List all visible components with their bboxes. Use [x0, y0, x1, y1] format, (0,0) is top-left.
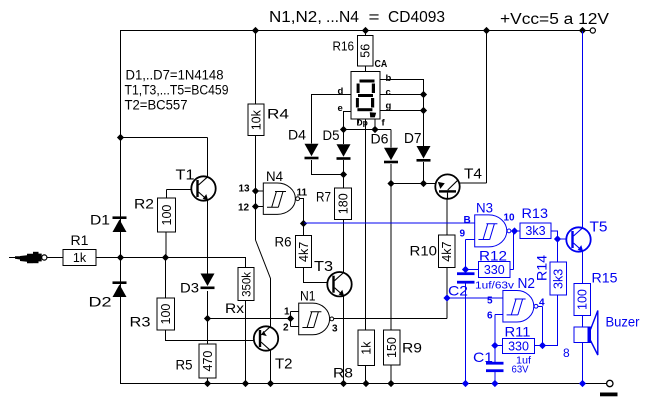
svg-text:4k7: 4k7 — [440, 241, 454, 261]
wire N3 pin9 to C2 top — [466, 240, 475, 273]
node Rx-0V — [242, 380, 249, 387]
wire display segment f down — [374, 119, 376, 130]
wire Rx bottom to 0V rail — [245, 301, 247, 384]
wire C1 node to R11 left — [495, 345, 503, 347]
wire R12 right to N3 output — [510, 231, 514, 270]
diode D2 — [113, 281, 127, 297]
svg-text:12: 12 — [238, 203, 250, 214]
svg-text:11: 11 — [297, 188, 308, 199]
wire C2 node to R12 left — [466, 269, 479, 271]
resistor R12 — [479, 262, 511, 278]
svg-text:56: 56 — [359, 44, 373, 58]
wire R6 bottom to T3 base — [304, 268, 328, 283]
wire left rail to T1 collector — [120, 138, 208, 177]
svg-text:1uf/63v: 1uf/63v — [475, 281, 514, 292]
svg-text:350k: 350k — [242, 272, 254, 297]
wire N1 output pin 3 to R10 node — [334, 318, 447, 320]
node T3-0V — [340, 380, 347, 387]
svg-text:10k: 10k — [250, 109, 264, 130]
node C2-0V — [462, 380, 469, 387]
wire R2 top to T1 base — [167, 190, 192, 199]
wire top rail to T4 collector — [460, 31, 487, 184]
svg-text:13: 13 — [239, 184, 251, 195]
svg-text:R8: R8 — [333, 366, 353, 381]
wire display Dp pin through R8 to 0V rail — [365, 119, 367, 384]
svg-text:R9: R9 — [402, 341, 422, 356]
wire D3/R5 node to N1 inputs — [208, 318, 291, 320]
resistor R1 — [63, 250, 96, 266]
svg-text:T1,T3,...T5=BC459: T1,T3,...T5=BC459 — [125, 83, 229, 98]
capacitor C1 — [486, 362, 504, 372]
svg-text:C1: C1 — [473, 349, 493, 365]
node R5-0V — [204, 380, 211, 387]
wire probe tail — [9, 257, 15, 259]
svg-text:c: c — [386, 87, 391, 98]
node pin12 — [252, 203, 259, 210]
svg-text:R14: R14 — [535, 254, 550, 281]
probe input terminal — [15, 252, 47, 263]
svg-text:N1,N2,: N1,N2, — [269, 9, 322, 26]
svg-text:R16: R16 — [333, 40, 355, 54]
svg-text:D4: D4 — [288, 127, 306, 143]
resistor R9 — [383, 330, 400, 365]
resistor R3 — [157, 298, 175, 330]
svg-text:T2=BC557: T2=BC557 — [125, 98, 188, 113]
wire N1 input stubs pins 1 2 — [291, 312, 299, 327]
node f — [371, 126, 378, 133]
svg-text:N3: N3 — [476, 201, 493, 216]
svg-text:R12: R12 — [479, 249, 507, 264]
wire R3 bottom to T2 base — [166, 330, 255, 341]
svg-text:...N4: ...N4 — [326, 9, 359, 26]
svg-text:3k3: 3k3 — [552, 269, 566, 289]
svg-text:D5: D5 — [323, 127, 340, 143]
wire R10 node to N2 pin5 — [447, 297, 503, 299]
svg-text:R11: R11 — [505, 325, 531, 340]
wire T1 emitter to D3 anode — [207, 200, 209, 274]
resistor Rx — [238, 268, 254, 301]
node R10-N2pin5 — [443, 294, 450, 301]
wire node to R14 top — [557, 239, 559, 262]
svg-text:R10: R10 — [410, 243, 438, 259]
svg-text:1k: 1k — [73, 251, 87, 265]
svg-text:R2: R2 — [134, 197, 154, 212]
svg-text:180: 180 — [337, 193, 351, 214]
svg-text:T1: T1 — [176, 167, 195, 184]
wire display segment e down — [344, 112, 352, 130]
svg-text:330: 330 — [508, 340, 529, 354]
wire T3 emitter to 0V rail — [343, 297, 345, 384]
wire N2 pin6 to C1 top — [495, 315, 503, 362]
svg-text:R7: R7 — [316, 190, 331, 205]
wire D4 cathode to D5 node — [312, 160, 344, 175]
node D7-T4 — [420, 180, 427, 187]
node c — [420, 91, 427, 98]
diode D6 — [384, 148, 398, 164]
svg-text:R13: R13 — [522, 206, 549, 221]
svg-text:N2: N2 — [518, 275, 536, 292]
node pin6-R11-C1 — [491, 342, 498, 349]
resistor R4 — [248, 104, 264, 136]
wire diode bus to T4 base — [391, 183, 435, 185]
node e-D5 — [340, 126, 347, 133]
svg-text:63V: 63V — [512, 365, 529, 376]
wire +Vcc top rail — [120, 30, 583, 32]
svg-text:150: 150 — [385, 337, 399, 358]
wire node to R3 top — [165, 258, 167, 299]
wire N4 input node to T2 emitter (diagonal) — [256, 240, 271, 327]
svg-text:100: 100 — [160, 205, 174, 226]
resistor R15 — [574, 284, 591, 316]
svg-text:T5: T5 — [590, 219, 608, 236]
svg-text:R6: R6 — [275, 235, 292, 250]
diode D5 — [337, 144, 351, 160]
svg-text:Dp: Dp — [357, 118, 368, 128]
node N1 inputs — [287, 315, 294, 322]
node T2-0V — [267, 380, 274, 387]
node rail-R4 — [252, 27, 259, 34]
transistor T2 — [254, 326, 278, 350]
svg-text:330: 330 — [484, 263, 505, 277]
diode D4 — [305, 144, 319, 160]
svg-text:N4: N4 — [266, 169, 283, 184]
transistor T1 — [191, 176, 215, 200]
op-amp gate N1 — [299, 303, 334, 335]
node R13-R14-T5 — [554, 235, 561, 242]
svg-text:3k3: 3k3 — [525, 224, 545, 238]
svg-text:D3: D3 — [180, 280, 199, 296]
svg-text:f: f — [382, 118, 386, 129]
wire display segment c — [380, 94, 424, 96]
wire N3 output to R13 — [511, 230, 520, 232]
wire top rail to R4 — [255, 31, 257, 105]
wire T4 emitter through R10 down — [446, 199, 448, 319]
op-amp gate N2 — [503, 291, 538, 323]
node D3-R5 — [204, 315, 211, 322]
diode D1 — [113, 216, 127, 232]
svg-text:T3: T3 — [314, 258, 333, 275]
svg-text:R3: R3 — [130, 315, 151, 330]
svg-text:2: 2 — [283, 323, 289, 334]
resistor R10 — [438, 235, 455, 268]
wire display segment b to D7 — [380, 80, 424, 147]
wire C2 bottom to 0V rail — [465, 284, 467, 384]
node rail-R16 — [362, 27, 369, 34]
diode D7 — [417, 146, 431, 162]
wire through R9 to 0V rail — [390, 184, 392, 384]
resistor R6 — [296, 236, 312, 268]
wire to D6 anode — [390, 130, 392, 148]
wire T5 emitter to R15 — [582, 252, 584, 284]
wire buzzer to 0V rail — [582, 343, 584, 384]
svg-text:R15: R15 — [592, 271, 618, 286]
svg-text:4: 4 — [539, 298, 545, 309]
svg-text:1: 1 — [284, 307, 290, 318]
node N4out-R6-N3B — [300, 220, 307, 227]
svg-text:8: 8 — [563, 346, 570, 360]
svg-text:D1: D1 — [90, 212, 110, 228]
svg-text:CD4093: CD4093 — [388, 9, 445, 26]
wire D5 cathode to R7 — [343, 160, 345, 188]
node D6 — [387, 180, 394, 187]
wire input node to Rx top — [120, 258, 246, 268]
svg-text:g: g — [386, 101, 392, 112]
wire to +Vcc terminal — [583, 30, 590, 32]
wire N4 output pin 11 to R6 — [299, 199, 303, 236]
wire D6 cathode down — [390, 164, 392, 184]
svg-text:N1: N1 — [300, 289, 316, 304]
resistor R5 — [199, 344, 216, 378]
svg-text:R5: R5 — [176, 358, 193, 373]
svg-text:D7: D7 — [404, 131, 422, 147]
wire R7 to T3 collector — [343, 220, 345, 273]
wire R15 to buzzer — [582, 316, 584, 328]
wire +Vcc to T5 collector — [582, 31, 584, 228]
resistor R7 — [335, 188, 352, 220]
svg-text:T4: T4 — [464, 166, 482, 183]
wire R2 bottom to node — [165, 232, 167, 258]
wire display Dp stub — [358, 119, 360, 124]
svg-text:+Vcc=5 a 12V: +Vcc=5 a 12V — [500, 11, 610, 28]
wire D7 cathode down — [423, 162, 425, 184]
svg-text:470: 470 — [201, 351, 215, 372]
node rail-T1 — [117, 134, 124, 141]
wire left rail — [120, 31, 122, 384]
wire to D5 anode — [343, 130, 345, 145]
wire display segment g — [380, 110, 424, 112]
terminal output — [607, 380, 613, 386]
svg-text:6: 6 — [487, 311, 493, 322]
node rail-T4 — [483, 27, 490, 34]
diode D3 — [201, 274, 215, 290]
svg-text:D6: D6 — [371, 131, 389, 147]
resistor R16 — [357, 35, 373, 65]
svg-text:D1,..D7=1N4148: D1,..D7=1N4148 — [126, 68, 224, 83]
node pin9-C2-R12 — [462, 266, 469, 273]
transistor T3 — [327, 272, 351, 296]
capacitor C2 — [457, 272, 475, 283]
svg-text:b: b — [386, 73, 392, 84]
node R8-0V — [362, 380, 369, 387]
node pin13 — [252, 187, 259, 194]
resistor R11 — [503, 339, 535, 354]
svg-text:5: 5 — [487, 296, 493, 307]
svg-text:100: 100 — [159, 304, 173, 325]
svg-text:C2: C2 — [448, 283, 468, 299]
resistor R13 — [520, 223, 551, 239]
wire e-f segment bus — [344, 129, 392, 131]
wire N4out node to N3 input B — [304, 222, 475, 224]
node buzzer-0V — [579, 380, 586, 387]
wire T2 collector to 0V rail — [270, 350, 272, 384]
buzzer speaker — [574, 311, 598, 356]
svg-text:Rx: Rx — [225, 300, 244, 316]
wire probe to R1 — [47, 257, 63, 259]
node R2-R3 — [162, 254, 169, 261]
svg-text:1k: 1k — [360, 341, 374, 355]
node R9-0V — [387, 380, 394, 387]
resistor R2 — [158, 198, 176, 232]
svg-text:=: = — [369, 9, 380, 26]
wire R13 to T5 base — [551, 231, 567, 239]
node rail-Vcc — [579, 27, 586, 34]
svg-text:9: 9 — [460, 229, 466, 240]
node D4-D5-R7 — [340, 171, 347, 178]
node N3out-R13 — [511, 227, 518, 234]
op-amp gate N3 — [475, 215, 511, 247]
resistor R14 — [550, 262, 567, 295]
op-amp gate N4 — [263, 183, 299, 214]
node g — [420, 107, 427, 114]
svg-text:4k7: 4k7 — [297, 242, 311, 262]
wire display segment d to D4 anode — [312, 95, 352, 144]
svg-text:B: B — [464, 215, 471, 226]
wire bottom 0V rail — [120, 383, 606, 385]
svg-text:3: 3 — [332, 324, 338, 335]
svg-text:100: 100 — [576, 289, 590, 310]
wire R16 to display CA — [365, 66, 367, 72]
terminal +Vcc — [590, 28, 595, 33]
ground bar — [600, 393, 618, 397]
svg-text:R4: R4 — [267, 106, 289, 122]
svg-text:CA: CA — [375, 59, 388, 70]
node R1-D1-D2 — [117, 254, 124, 261]
wire R14 bottom to N2 output node — [543, 295, 558, 346]
wire N4 input stubs pins 13 12 — [256, 191, 264, 207]
wire R11 right to node — [535, 345, 543, 347]
wire R4 to N4 inputs — [255, 136, 257, 241]
svg-text:T2: T2 — [275, 356, 293, 373]
resistor R8 — [358, 330, 375, 366]
svg-text:R1: R1 — [71, 233, 89, 248]
wire C1 bottom to 0V rail — [494, 372, 496, 384]
node C1-0V — [491, 380, 498, 387]
svg-text:d: d — [338, 86, 344, 97]
wire D3 cathode through R5 to 0V rail — [207, 291, 209, 384]
wire top rail to R16 — [365, 31, 367, 36]
wire N2 output pin4 down — [538, 306, 543, 345]
transistor T5 — [566, 227, 590, 251]
svg-text:D2: D2 — [89, 294, 112, 310]
svg-text:10: 10 — [504, 213, 516, 224]
svg-text:Buzer: Buzer — [606, 314, 640, 330]
7-segment display — [351, 72, 380, 120]
transistor T4 — [435, 174, 459, 199]
node N2out-R11-R14 — [539, 342, 546, 349]
svg-text:e: e — [338, 103, 343, 114]
wire R1 to D1/D2 node — [96, 257, 120, 259]
